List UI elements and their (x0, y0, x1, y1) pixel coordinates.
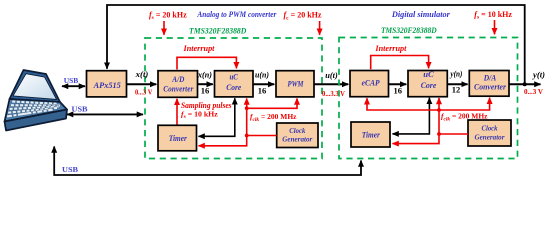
svg-text:x(n): x(n) (197, 70, 212, 79)
block eCAP (350, 71, 389, 97)
svg-text:Timer: Timer (169, 134, 188, 143)
block PWM (276, 71, 314, 97)
wire: clock to Timer (board 1) (199, 136, 277, 146)
wire: sampling pulses Timer to A/D (board 1) (176, 99, 178, 126)
wire: x(n) A/D to uC core (198, 83, 213, 85)
svg-text:Converter: Converter (474, 83, 507, 92)
svg-text:Interrupt: Interrupt (183, 44, 216, 53)
junction dot output (523, 82, 527, 86)
svg-text:A/D: A/D (171, 75, 184, 84)
wire: USB link board 2 to laptop (bottom) (54, 147, 361, 176)
svg-text:Core: Core (226, 83, 241, 92)
svg-text:USB: USB (72, 104, 88, 113)
block uC Core (board 1) (215, 71, 254, 97)
wire: interrupt eCAP to uC core (board 2) (371, 56, 429, 70)
laptop keyboard keys (7, 100, 61, 118)
wire: uC core to Timer black link (board 2) (393, 98, 430, 134)
svg-text:eCAP: eCAP (362, 78, 381, 87)
svg-text:D/A: D/A (483, 74, 497, 83)
laptop base deck (5, 99, 68, 122)
svg-text:Generator: Generator (475, 132, 505, 141)
block D/A Converter (469, 71, 509, 97)
wire: uC core to Timer black link (board 1) (199, 98, 235, 136)
wire: clock to PWM (board 1) (247, 99, 297, 109)
svg-text:TMS320F28388D: TMS320F28388D (381, 26, 437, 35)
wire: clock to uC core (board 1) (246, 99, 248, 136)
svg-text:Generator: Generator (282, 134, 312, 143)
svg-text:0...3.3 V: 0...3.3 V (322, 90, 345, 98)
block Timer (board 2) (351, 122, 390, 147)
block Clock Generator (board 1) (277, 123, 318, 148)
svg-text:16: 16 (258, 86, 267, 96)
block Timer (board 1) (158, 125, 197, 151)
svg-text:APx515: APx515 (93, 81, 121, 90)
wire: y(n) uC core to D/A (447, 83, 467, 85)
block A/D Converter (158, 71, 198, 98)
wire: feedback from output y(t) to APx515 (107, 5, 525, 84)
svg-text:Timer: Timer (362, 130, 381, 139)
junction dot clock net upper (board 1) (245, 106, 249, 110)
svg-text:PWM: PWM (288, 80, 305, 89)
svg-text:USB: USB (64, 76, 79, 85)
svg-text:uC: uC (229, 73, 238, 82)
svg-text:16: 16 (394, 86, 403, 96)
svg-text:Core: Core (421, 81, 437, 90)
svg-text:y(t): y(t) (532, 71, 545, 80)
svg-text:Digital simulator: Digital simulator (391, 10, 451, 19)
svg-text:u(t): u(t) (325, 71, 338, 80)
svg-text:0...3 V: 0...3 V (135, 89, 153, 97)
wire: clock to uC core (board 2) (438, 98, 440, 134)
laptop lid (10, 70, 61, 102)
svg-text:Interrupt: Interrupt (374, 44, 407, 53)
wire: interrupt A/D to uC core (board 1) (177, 57, 236, 69)
board 2 dashed box TMS320F28388D (339, 38, 518, 159)
arrow fs to board1 (163, 21, 165, 35)
wire: u(t) PWM to eCAP (314, 83, 348, 85)
block uC Core (board 2) (408, 71, 447, 97)
block Clock Generator (board 2) (468, 120, 511, 146)
wire: USB link laptop to APx515 (62, 85, 85, 87)
laptop screen (13, 74, 57, 100)
wire: y(t) output (509, 83, 541, 85)
svg-text:12: 12 (452, 85, 461, 95)
junction dot clock net lower (board 2) (437, 132, 441, 136)
svg-text:uC: uC (423, 70, 434, 79)
svg-text:USB: USB (62, 165, 78, 174)
svg-text:TMS320F28388D: TMS320F28388D (189, 27, 246, 36)
laptop PC (5, 70, 68, 131)
svg-text:0...3 V: 0...3 V (524, 88, 543, 96)
wire: eCAP to uC core (board 2) (389, 83, 407, 85)
svg-text:Converter: Converter (163, 85, 194, 94)
instrument APx515 (87, 71, 127, 97)
svg-text:16: 16 (201, 86, 210, 96)
laptop base front side (5, 110, 68, 131)
wire: clock rail to eCAP and D/A (board 2) (367, 98, 490, 110)
junction dot clock net lower (board 1) (245, 134, 249, 138)
wire: USB link laptop to board 1 (67, 113, 143, 115)
junction dot clock net upper (board 2) (437, 108, 441, 112)
svg-text:x(t): x(t) (135, 70, 149, 79)
arrow fc to board1 (319, 21, 321, 35)
wire: u(n) uC core to PWM (253, 83, 274, 85)
svg-text:Analog to PWM converter: Analog to PWM converter (197, 10, 278, 19)
wire: clock to Timer (board 2) (393, 134, 469, 144)
svg-text:u(n): u(n) (255, 70, 269, 79)
svg-text:Clock: Clock (482, 123, 498, 132)
arrow fs to board 2 (494, 20, 496, 34)
svg-text:y(n): y(n) (450, 70, 463, 79)
board 1 dashed box TMS320F28388D (145, 38, 322, 159)
wire: x(t) APx515 to A/D (127, 83, 157, 85)
